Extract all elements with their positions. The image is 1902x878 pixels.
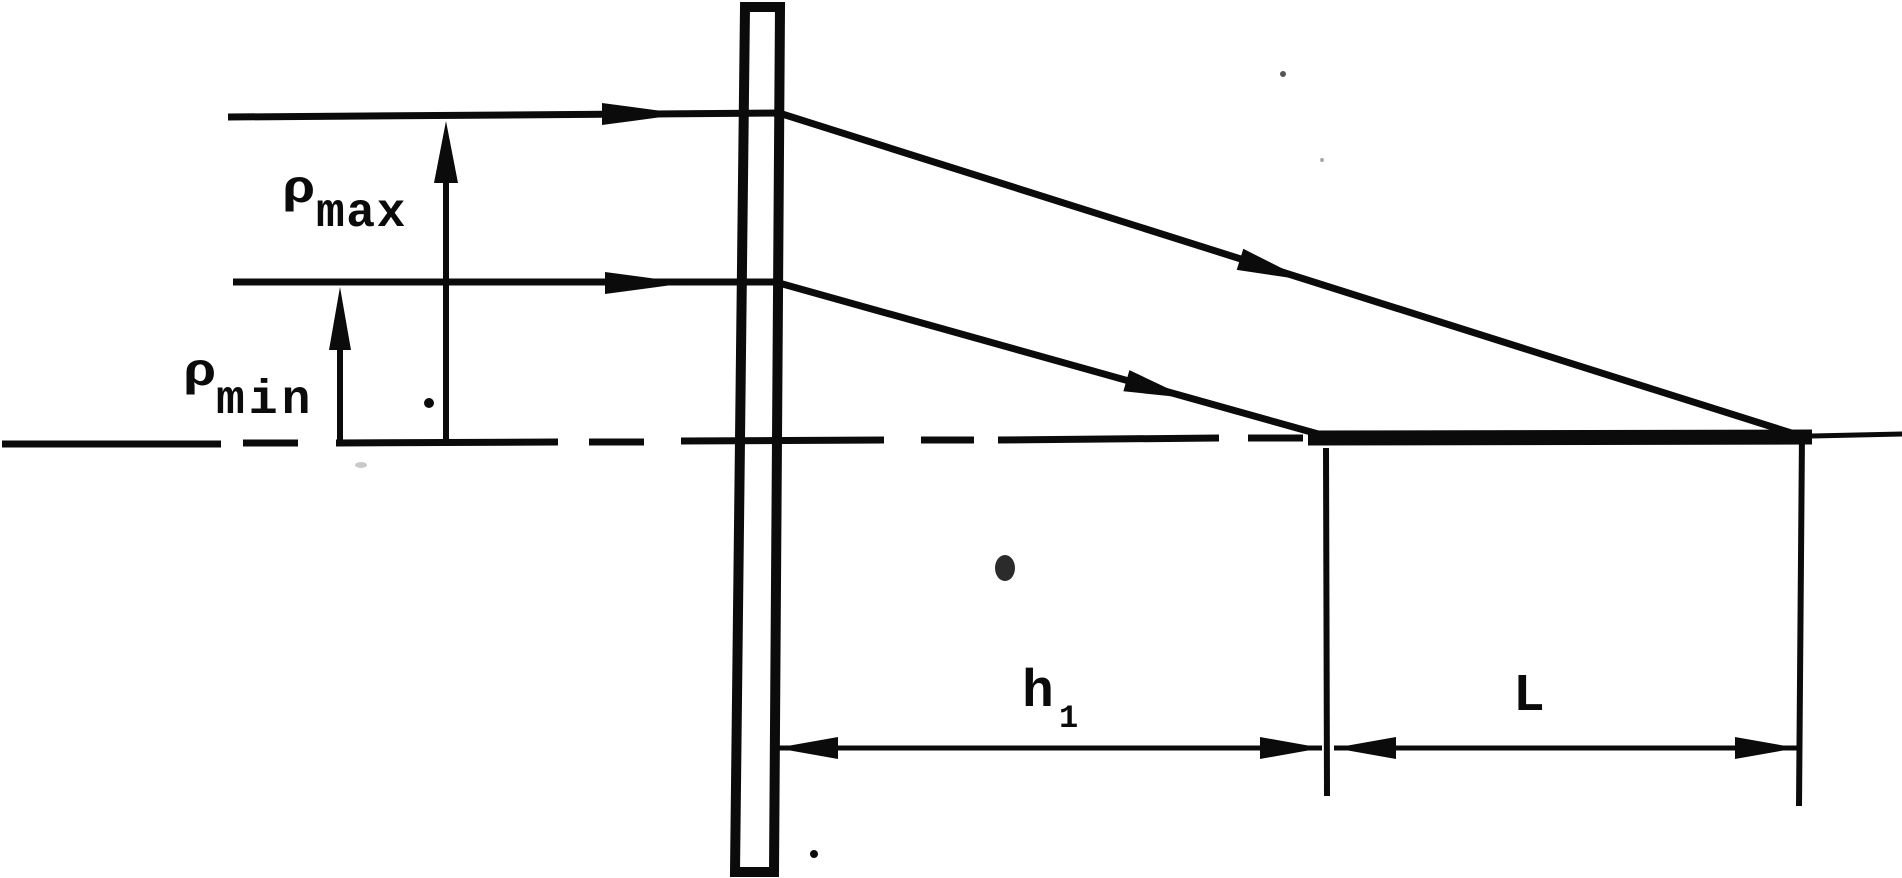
axicon plate (lens) (735, 7, 780, 872)
optical axis dash 4 (921, 437, 974, 444)
optical axis dash through lens (681, 440, 884, 441)
svg-text:ρ: ρ (282, 164, 316, 216)
refracted ray from rho_max (779, 113, 1804, 437)
small dot near rho arrows (424, 398, 434, 408)
svg-text:1: 1 (1059, 700, 1078, 737)
ink blob speck (995, 555, 1015, 581)
svg-text:h: h (1022, 662, 1054, 722)
optical axis dash 1 (2, 441, 221, 448)
tiny speck top right (1280, 71, 1286, 77)
faint speck mid right (1320, 158, 1324, 162)
rho_max dimension arrow shaft (443, 170, 449, 441)
L dimension line (1334, 746, 1797, 751)
svg-text:L: L (1513, 666, 1545, 726)
optical axis dash 3 (589, 439, 644, 446)
arrowhead refracted ray rho_min (1123, 370, 1188, 398)
arrowhead incoming ray rho_min (605, 272, 687, 294)
arrowhead incoming ray rho_max (602, 103, 684, 125)
optical axis dash 2 (243, 440, 298, 447)
arrowhead rho_max vertical (434, 121, 458, 183)
refracted ray from rho_min (779, 283, 1329, 437)
optical axis segment under dimension arrows (336, 442, 558, 443)
incoming ray rho_min (233, 279, 783, 286)
h1 dimension line (776, 746, 1322, 751)
vertical tick at start of focal segment (1326, 448, 1327, 796)
arrowhead h1 left (776, 737, 838, 759)
svg-text:ρ: ρ (183, 347, 217, 399)
arrowhead rho_min vertical (329, 287, 351, 350)
optical axis dash 5 (998, 438, 1219, 440)
small dot below lens (810, 850, 818, 858)
optical axis continuation right (1812, 434, 1902, 436)
incoming ray rho_max (228, 113, 783, 117)
svg-text:max: max (316, 187, 407, 241)
arrowhead h1 right (1260, 737, 1322, 759)
arrowhead L right (1735, 737, 1797, 759)
arrowhead L left (1334, 737, 1396, 759)
vertical tick at end of focal segment (1799, 433, 1802, 806)
optical axis dash 6 (1248, 435, 1303, 442)
arrowhead refracted ray rho_max (1237, 249, 1305, 280)
rho_min dimension arrow shaft (337, 340, 343, 441)
faint smudge below axis (355, 462, 367, 468)
focal line segment (thick) (1308, 437, 1812, 438)
svg-text:min: min (216, 374, 314, 428)
